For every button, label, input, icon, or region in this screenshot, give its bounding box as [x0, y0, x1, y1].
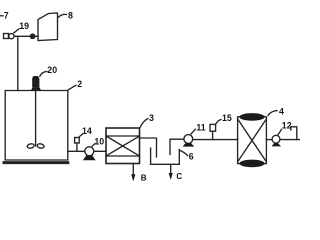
leader to label 19: [14, 29, 19, 33]
impeller right blade: [37, 143, 45, 149]
svg-text:B: B: [141, 174, 147, 183]
motor 20 base flange: [31, 87, 41, 91]
outlet C line: [170, 164, 172, 177]
svg-text:20: 20: [47, 65, 57, 75]
svg-text:19: 19: [19, 21, 29, 31]
tank 2 hatched base: [4, 161, 68, 164]
fitting at right edge: [291, 127, 297, 131]
valve 14: [75, 138, 80, 144]
svg-text:12: 12: [282, 120, 292, 130]
unit 3 X diagonal 2: [106, 136, 140, 156]
motor 20: [32, 76, 39, 87]
column 4 bottom cap: [239, 160, 264, 168]
agitator shaft: [35, 91, 37, 146]
svg-text:3: 3: [149, 113, 154, 123]
svg-text:7: 7: [4, 11, 9, 21]
wire: riser to fitting 13: [296, 131, 298, 140]
outlet C arrowhead: [169, 173, 173, 180]
pump 10: [85, 147, 94, 156]
leader to label 4: [268, 111, 277, 116]
leader to label 8: [58, 14, 67, 17]
junction dot: [30, 34, 34, 38]
pump 12: [272, 135, 280, 143]
pump 11 base: [183, 143, 195, 147]
svg-text:11: 11: [196, 123, 205, 133]
column 4 top cap: [239, 113, 264, 121]
unit 3 upper partition: [106, 135, 140, 137]
impeller left blade: [27, 143, 35, 149]
valve 15: [210, 124, 216, 131]
svg-text:14: 14: [82, 126, 92, 136]
tank 2: [5, 91, 68, 161]
wire: pump 11 discharge to column 4: [193, 139, 238, 141]
valve 14 stem: [76, 143, 78, 151]
pump 11: [184, 135, 193, 144]
svg-text:C: C: [176, 172, 182, 181]
filter unit 3 body: [106, 128, 140, 164]
wire: feed line from 7 to hopper 8: [9, 35, 39, 37]
leader to label 2: [68, 85, 76, 90]
wire: unit 3 outlet to seal pot: [140, 138, 157, 157]
label 7 leader dash: [0, 15, 3, 17]
hopper 8: [38, 13, 58, 41]
unit 3 lower partition: [106, 155, 140, 157]
column 4 X diagonal 1: [238, 120, 266, 161]
valve 15 stem: [212, 131, 214, 139]
unit 3 X diagonal 1: [106, 136, 140, 156]
inlet fitting 7: [4, 34, 9, 39]
svg-text:15: 15: [222, 113, 232, 123]
pump 12 base: [272, 143, 282, 146]
dip tube to pump 11: [170, 139, 184, 154]
leader to label 10: [92, 144, 95, 147]
svg-text:6: 6: [189, 152, 194, 162]
leader to label 15: [216, 120, 221, 124]
wire: column 4 outlet to pump 12: [266, 139, 272, 141]
pump 10 base: [83, 155, 96, 160]
svg-text:8: 8: [68, 10, 73, 20]
svg-text:10: 10: [94, 136, 104, 146]
wire: vertical drop into tank 2: [17, 36, 19, 90]
column 4 body: [238, 117, 267, 164]
svg-text:4: 4: [279, 107, 284, 117]
leader to label 11: [191, 129, 195, 134]
svg-text:2: 2: [77, 79, 82, 89]
column 4 X diagonal 2: [238, 120, 266, 161]
outlet B line: [132, 164, 134, 180]
wire: tank outlet pipe to unit 3: [68, 150, 106, 152]
leader to label 3: [140, 119, 148, 128]
seal pot 6: [151, 148, 180, 164]
wire: pump 12 discharge line: [281, 139, 301, 141]
outlet B arrowhead: [131, 174, 135, 181]
leader to label 20: [40, 71, 47, 76]
leader to label 6: [180, 151, 188, 156]
valve 19: [9, 34, 14, 39]
leader to label 12: [278, 129, 282, 135]
leader to label 14: [79, 134, 83, 137]
